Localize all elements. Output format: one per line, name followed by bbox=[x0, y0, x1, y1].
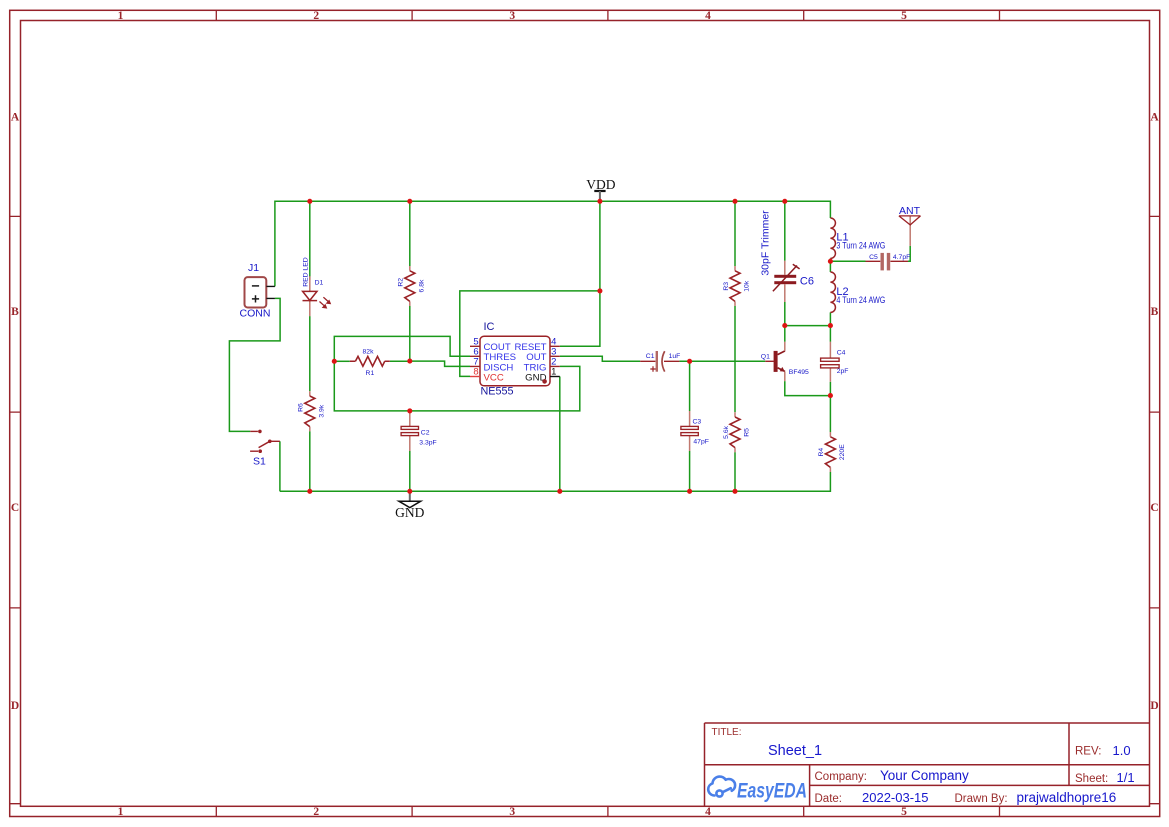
node L2 bottom bbox=[828, 323, 833, 328]
capacitor C3 bbox=[681, 411, 709, 451]
svg-text:10k: 10k bbox=[744, 280, 751, 292]
wire L1 bottom to tap bbox=[829, 258, 831, 272]
wire Q1 collector up bbox=[784, 326, 786, 342]
top ruler ticks bbox=[216, 10, 999, 20]
svg-text:2022-03-15: 2022-03-15 bbox=[862, 790, 929, 805]
svg-text:C: C bbox=[11, 502, 19, 514]
wire C4 bottom to node bbox=[829, 382, 831, 396]
svg-text:C3: C3 bbox=[693, 419, 702, 426]
svg-text:IC: IC bbox=[484, 321, 495, 333]
LED D1 bbox=[302, 257, 331, 316]
svg-text:VCC: VCC bbox=[484, 372, 504, 383]
resistor R1 bbox=[350, 349, 390, 377]
wire R3 top drop bbox=[734, 201, 736, 266]
wire L2 bottom bbox=[829, 312, 831, 325]
node rail-C6 bbox=[782, 199, 787, 204]
title block grid bbox=[705, 723, 1150, 806]
svg-text:Sheet_1: Sheet_1 bbox=[768, 743, 822, 759]
svg-text:3 Turn 24 AWG: 3 Turn 24 AWG bbox=[836, 241, 885, 251]
antenna ANT bbox=[899, 205, 921, 246]
wire OUT pin3 to C1 bbox=[560, 356, 640, 361]
node rail-VDD bbox=[597, 199, 602, 204]
svg-text:R3: R3 bbox=[723, 282, 730, 291]
EasyEDA logo cloud bbox=[708, 777, 735, 797]
svg-text:BF495: BF495 bbox=[789, 369, 809, 376]
svg-text:8: 8 bbox=[473, 367, 478, 378]
svg-text:CONN: CONN bbox=[240, 308, 271, 320]
svg-text:GND: GND bbox=[395, 505, 424, 520]
wire C5 to ANT bbox=[908, 246, 910, 261]
svg-text:82k: 82k bbox=[363, 349, 375, 356]
svg-text:C5: C5 bbox=[869, 254, 878, 261]
svg-text:4: 4 bbox=[705, 806, 711, 818]
wire R1 right stub bbox=[390, 360, 410, 362]
svg-text:4 Turn 24 AWG: 4 Turn 24 AWG bbox=[836, 295, 885, 305]
node rail-D1 bbox=[307, 199, 312, 204]
resistor R4 bbox=[818, 432, 846, 472]
node gnd-D1 bbox=[307, 489, 312, 494]
svg-text:VDD: VDD bbox=[586, 177, 615, 192]
svg-text:3: 3 bbox=[509, 10, 515, 22]
wire node to R4 bbox=[829, 396, 831, 432]
junction dots bbox=[307, 199, 833, 494]
svg-text:1: 1 bbox=[118, 10, 124, 22]
wire J1 plus to switch S1 bbox=[229, 298, 280, 431]
node C4 bottom bbox=[828, 393, 833, 398]
svg-text:Company:: Company: bbox=[815, 771, 867, 783]
inductor L1 bbox=[830, 218, 885, 258]
node rail-R2 bbox=[407, 199, 412, 204]
wire C1 to Q1 base bbox=[679, 360, 765, 362]
svg-text:A: A bbox=[1150, 112, 1159, 124]
wire D1 to R6 bbox=[309, 316, 311, 391]
node L1 tap bbox=[828, 259, 833, 264]
wire VDD top rail with left drop to J1 pin1 and right corner into L1 bbox=[275, 201, 831, 286]
svg-text:1: 1 bbox=[551, 367, 556, 378]
svg-text:ANT: ANT bbox=[899, 205, 921, 217]
wire R2 bottom to node bbox=[409, 306, 411, 361]
node gnd-R5 bbox=[732, 489, 737, 494]
wire R3 to R5 bbox=[734, 306, 736, 412]
wire ground rail bbox=[280, 472, 831, 491]
svg-text:2: 2 bbox=[313, 10, 319, 22]
wire C6 top drop bbox=[784, 201, 786, 260]
svg-text:3.3pF: 3.3pF bbox=[419, 440, 436, 447]
resistor R6 bbox=[298, 391, 326, 431]
wire R1 left stub bbox=[334, 360, 350, 362]
wire THRES-TRIG loop bbox=[334, 336, 580, 411]
svg-text:R1: R1 bbox=[366, 370, 375, 377]
capacitor C4 bbox=[821, 342, 849, 382]
svg-text:prajwaldhopre16: prajwaldhopre16 bbox=[1017, 790, 1117, 805]
svg-text:TITLE:: TITLE: bbox=[712, 727, 742, 738]
right ruler ticks bbox=[1150, 216, 1160, 803]
wire Q1 emitter down and right bbox=[785, 381, 831, 396]
node vcc-reset bbox=[597, 288, 602, 293]
wire S1 to ground rail bbox=[279, 441, 281, 491]
svg-text:D1: D1 bbox=[315, 280, 324, 287]
svg-text:B: B bbox=[1151, 306, 1159, 318]
svg-text:47pF: 47pF bbox=[693, 439, 709, 446]
capacitor C2 bbox=[401, 411, 437, 451]
capacitor C5 bbox=[866, 253, 911, 271]
svg-text:2: 2 bbox=[313, 806, 319, 818]
switch S1 bbox=[250, 430, 280, 468]
wire RESET pin4 riser bbox=[560, 291, 600, 346]
svg-text:R2: R2 bbox=[398, 278, 405, 287]
svg-text:3.9k: 3.9k bbox=[318, 404, 325, 417]
wire C2 bottom to ground rail bbox=[409, 451, 411, 491]
bottom ruler ticks bbox=[216, 806, 999, 816]
svg-text:5.6k: 5.6k bbox=[723, 425, 730, 438]
wire C6 bottom bbox=[784, 302, 786, 326]
op-amp-style IC U1 NE555 bbox=[470, 321, 560, 397]
svg-text:C4: C4 bbox=[837, 350, 846, 357]
svg-text:C6: C6 bbox=[800, 275, 814, 287]
wire D1 top drop bbox=[309, 201, 311, 279]
inductor L2 bbox=[830, 272, 885, 312]
svg-text:Sheet:: Sheet: bbox=[1075, 773, 1108, 785]
wire VCC pin8 riser bbox=[460, 291, 600, 377]
ground symbol GND bbox=[395, 491, 424, 520]
pin 1 dot bbox=[542, 379, 547, 384]
svg-text:D: D bbox=[11, 700, 19, 712]
wire DISCH jog bbox=[410, 361, 470, 366]
svg-text:Q1: Q1 bbox=[761, 353, 770, 360]
node rail-R3 bbox=[732, 199, 737, 204]
connector J1 bbox=[240, 262, 275, 320]
wire R6 to ground rail bbox=[309, 431, 311, 491]
node C1 out bbox=[687, 359, 692, 364]
node gnd-555 bbox=[557, 489, 562, 494]
svg-text:EasyEDA: EasyEDA bbox=[737, 780, 807, 803]
svg-text:S1: S1 bbox=[253, 455, 266, 467]
trimmer capacitor C6 bbox=[759, 210, 814, 302]
svg-text:1.0: 1.0 bbox=[1113, 743, 1131, 758]
svg-text:2pF: 2pF bbox=[837, 368, 849, 375]
svg-text:J1: J1 bbox=[248, 262, 259, 274]
wire tap to C5 bbox=[830, 260, 865, 262]
svg-text:Date:: Date: bbox=[815, 793, 843, 805]
resistor R5 bbox=[723, 412, 751, 452]
left ruler ticks bbox=[10, 216, 21, 803]
wire R2 top drop bbox=[409, 201, 411, 266]
wire C1 node drop to C3 bbox=[689, 361, 691, 411]
node R1 right bbox=[407, 359, 412, 364]
capacitor C1 polarized bbox=[640, 351, 680, 372]
svg-text:4.7pF: 4.7pF bbox=[893, 254, 910, 261]
svg-text:6.8k: 6.8k bbox=[418, 279, 425, 292]
svg-text:5: 5 bbox=[901, 806, 907, 818]
svg-text:D: D bbox=[1150, 700, 1158, 712]
svg-text:Drawn By:: Drawn By: bbox=[955, 793, 1008, 805]
svg-text:30pF Trimmer: 30pF Trimmer bbox=[759, 210, 771, 276]
wire C4 top bbox=[829, 326, 831, 342]
svg-text:R4: R4 bbox=[818, 448, 825, 457]
svg-text:1uF: 1uF bbox=[669, 353, 681, 360]
svg-text:REV:: REV: bbox=[1075, 746, 1101, 758]
wire C6 to L2 link bbox=[785, 325, 831, 327]
node gnd-C3 bbox=[687, 489, 692, 494]
wire 555 GND pin1 drop bbox=[559, 377, 561, 492]
node C2 top bbox=[407, 408, 412, 413]
svg-text:C2: C2 bbox=[421, 430, 430, 437]
svg-text:220E: 220E bbox=[839, 444, 846, 460]
resistor R2 bbox=[398, 266, 426, 306]
svg-text:R5: R5 bbox=[744, 428, 751, 437]
resistor R3 bbox=[723, 266, 751, 306]
svg-text:C1: C1 bbox=[646, 353, 655, 360]
svg-text:R6: R6 bbox=[298, 403, 305, 412]
svg-text:C: C bbox=[1150, 502, 1158, 514]
svg-text:B: B bbox=[11, 306, 19, 318]
svg-text:NE555: NE555 bbox=[481, 385, 514, 397]
transistor Q1 BF495 bbox=[761, 342, 809, 381]
svg-text:Your Company: Your Company bbox=[880, 768, 969, 783]
node C6 bottom bbox=[782, 323, 787, 328]
svg-text:RED LED: RED LED bbox=[302, 257, 309, 287]
svg-text:1: 1 bbox=[118, 806, 124, 818]
wire C3 bottom to ground rail bbox=[689, 451, 691, 491]
svg-text:1/1: 1/1 bbox=[1117, 770, 1135, 785]
svg-text:A: A bbox=[11, 112, 20, 124]
wire VDD drop at x600 bbox=[599, 201, 601, 291]
node gnd-C2 bbox=[407, 489, 412, 494]
svg-text:5: 5 bbox=[901, 10, 907, 22]
power flag VDD bbox=[586, 177, 615, 200]
svg-text:4: 4 bbox=[705, 10, 711, 22]
svg-text:3: 3 bbox=[509, 806, 515, 818]
node R1 left bbox=[332, 359, 337, 364]
wire R5 bottom to ground rail bbox=[734, 452, 736, 491]
